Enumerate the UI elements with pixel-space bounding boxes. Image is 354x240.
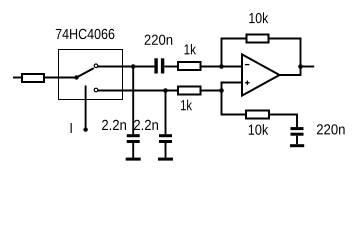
node junction inverting input / feedback	[219, 64, 224, 69]
wire C1 to ground	[132, 143, 134, 158]
switch contact bottom	[94, 88, 98, 92]
wire C3 to R2	[164, 66, 177, 68]
wire R-in to switch common	[45, 77, 77, 79]
IC U1 74HC4066 box	[59, 50, 123, 100]
wire down to R5	[222, 91, 246, 115]
label 10k (R4)	[249, 13, 268, 24]
wire input stub	[13, 77, 21, 79]
label 74HC4066	[56, 29, 115, 39]
node junction row C / C2	[163, 88, 168, 93]
resistor R-in (input)	[22, 74, 44, 82]
wire output stub	[301, 66, 315, 68]
ground symbol C4	[290, 144, 304, 147]
resistor R3 1k bottom	[178, 87, 201, 95]
resistor R5 10k bottom	[246, 111, 269, 119]
node output junction	[298, 64, 303, 69]
op-amp plus sign	[245, 81, 249, 85]
wire switch control line	[85, 86, 87, 130]
capacitor C4 220n plates	[291, 127, 304, 130]
wire C2 from row C down	[165, 91, 167, 135]
wire R2 to op-amp inverting input	[202, 66, 242, 68]
resistor R2 1k top	[178, 62, 201, 70]
capacitor C2 2.2n plates	[159, 134, 172, 137]
label 1k (R2)	[185, 44, 197, 55]
label 220n (C3)	[145, 35, 173, 45]
wire R3 to junction	[202, 90, 222, 92]
wire row C: switch bottom contact to R3	[98, 90, 177, 92]
wire R5 to C4	[270, 115, 297, 128]
resistor R4 10k feedback	[247, 35, 269, 43]
wire C2 to ground	[165, 143, 167, 158]
switch lever	[77, 68, 94, 77]
node junction row C / RC low-pass	[219, 88, 224, 93]
wire row A: switch top contact to C3	[98, 66, 155, 68]
label 220n (C4)	[317, 124, 345, 134]
node control terminal	[83, 127, 87, 131]
label 2.2n (C1)	[102, 120, 126, 130]
switch contact top	[94, 64, 98, 68]
wire op-amp output	[280, 67, 301, 76]
ground symbol C2	[158, 158, 173, 161]
op-amp minus sign	[245, 64, 249, 66]
label 10k (R5)	[249, 124, 269, 135]
op-amp U2	[242, 54, 280, 95]
wire feedback riser and top run	[222, 39, 246, 67]
label 2.2n (C2)	[134, 120, 158, 130]
wire C4 to ground	[296, 136, 298, 145]
label I (control input)	[71, 123, 72, 133]
capacitor C3 220n series right plate	[161, 58, 164, 73]
capacitor C3 220n series left plate	[154, 58, 157, 73]
label 1k (R3)	[181, 100, 192, 111]
node junction row A / C1	[131, 64, 136, 69]
wire jog to op-amp non-inverting input	[222, 83, 242, 91]
capacitor C1 2.2n plates	[127, 134, 140, 137]
ground symbol C1	[126, 158, 141, 161]
node switch common pole	[74, 75, 78, 79]
wire feedback to output node	[270, 39, 301, 67]
wire C1 from row A down	[132, 67, 134, 135]
